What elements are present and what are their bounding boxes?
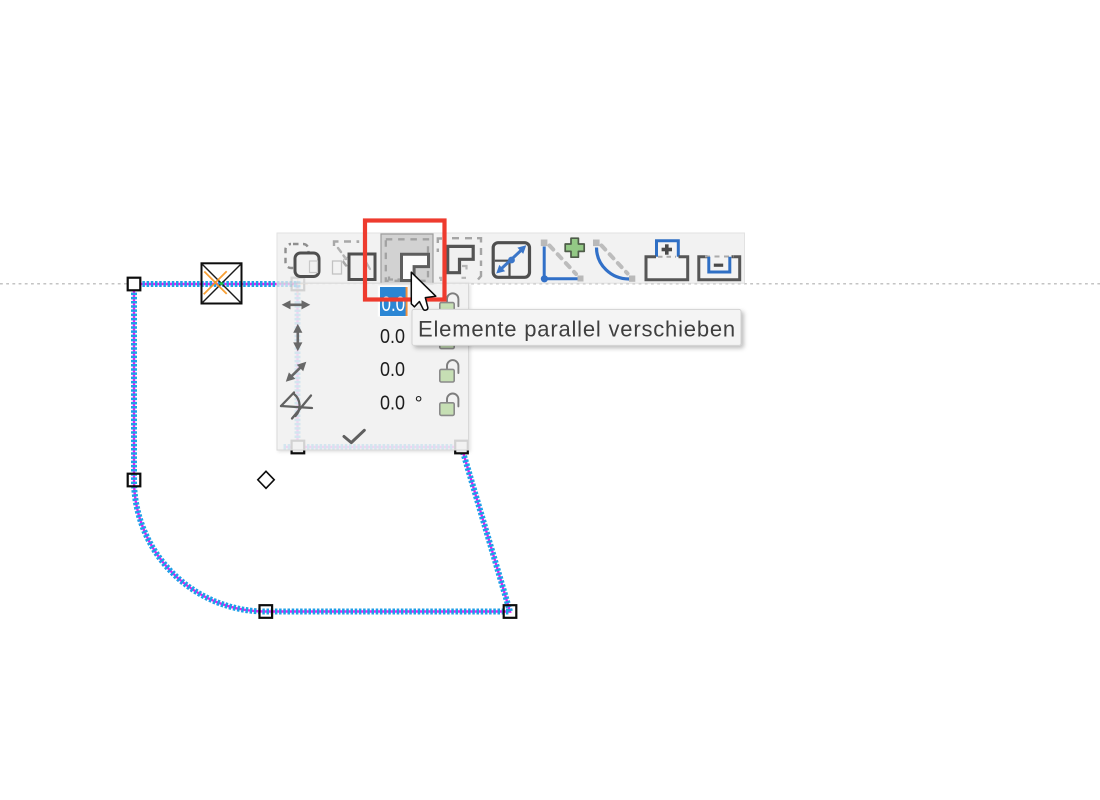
- svg-text:0.0: 0.0: [382, 292, 406, 316]
- row1 value field (selected): [378, 286, 408, 317]
- icon 8: boolean add (rect with blue bump and plus): [646, 241, 688, 280]
- row4 padlock: [440, 394, 459, 416]
- row1 padlock (open, green): [440, 293, 459, 315]
- vertex handle C (palette bottom-left): [292, 441, 305, 454]
- red highlight frame: [365, 221, 445, 300]
- icon 1: move sub-element (dashed + solid rounded squares): [286, 244, 320, 277]
- vertex handle G (left arc end): [128, 474, 141, 487]
- vertex handle F (bottom arc end): [260, 605, 273, 618]
- row1 icon: horizontal distance arrow: [282, 300, 311, 309]
- vertex handle A (top-left): [128, 278, 141, 291]
- tooltip "Elemente parallel verschieben": [412, 309, 741, 345]
- vertex handle E (bottom-right): [504, 605, 517, 618]
- pet palette toolbar: [277, 233, 745, 285]
- washed ants of top edge behind toolbar/palette seam: [277, 281, 298, 288]
- arc centre diamond: [258, 471, 274, 488]
- mouse cursor: [411, 272, 436, 310]
- vertex handle B (behind palette): [292, 278, 305, 291]
- icon 4: offset edge variant (dashed frame): [438, 238, 481, 281]
- icon 3: offset edge (pressed button): [381, 234, 433, 285]
- svg-text:0.0: 0.0: [380, 393, 405, 415]
- row2 icon: vertical distance arrow: [293, 324, 302, 351]
- selected polygon (marching-ants magenta underlay): [134, 284, 510, 612]
- confirm checkmark: [344, 430, 364, 442]
- object anchor box with X: [202, 263, 242, 303]
- row3 icon: diagonal distance arrow: [286, 362, 307, 382]
- icon 7: fillet edge (blue arc): [593, 240, 635, 282]
- svg-text:0.0: 0.0: [380, 326, 405, 348]
- icon 6: add vertex (blue corner + green plus): [541, 238, 584, 282]
- svg-text:Elemente parallel verschieben: Elemente parallel verschieben: [418, 317, 736, 342]
- row4 icon: angle: [281, 393, 312, 419]
- row3 padlock: [440, 360, 459, 382]
- icon 2: move vertex (ghost squares + solid square): [333, 242, 376, 280]
- vertex handle D (palette bottom-right): [455, 441, 468, 454]
- row2 padlock (mostly behind tooltip): [440, 327, 459, 349]
- svg-text:°: °: [415, 393, 423, 415]
- tracker palette window: [277, 283, 469, 450]
- icon 5: resize (square + blue diagonal arrow): [493, 243, 529, 278]
- icon 9: boolean subtract (rect with blue notch and minus): [699, 257, 740, 280]
- orange hotspot cross: [204, 272, 226, 294]
- ants stub left of node C (under palette): [284, 446, 298, 448]
- selected polygon (marching-ants blue dashes): [134, 284, 510, 612]
- guideline (horizontal dashed guide across page): [0, 283, 1100, 285]
- svg-text:0.0: 0.0: [380, 359, 405, 381]
- faint orange editing-origin cross at node B (under palette): [289, 274, 308, 295]
